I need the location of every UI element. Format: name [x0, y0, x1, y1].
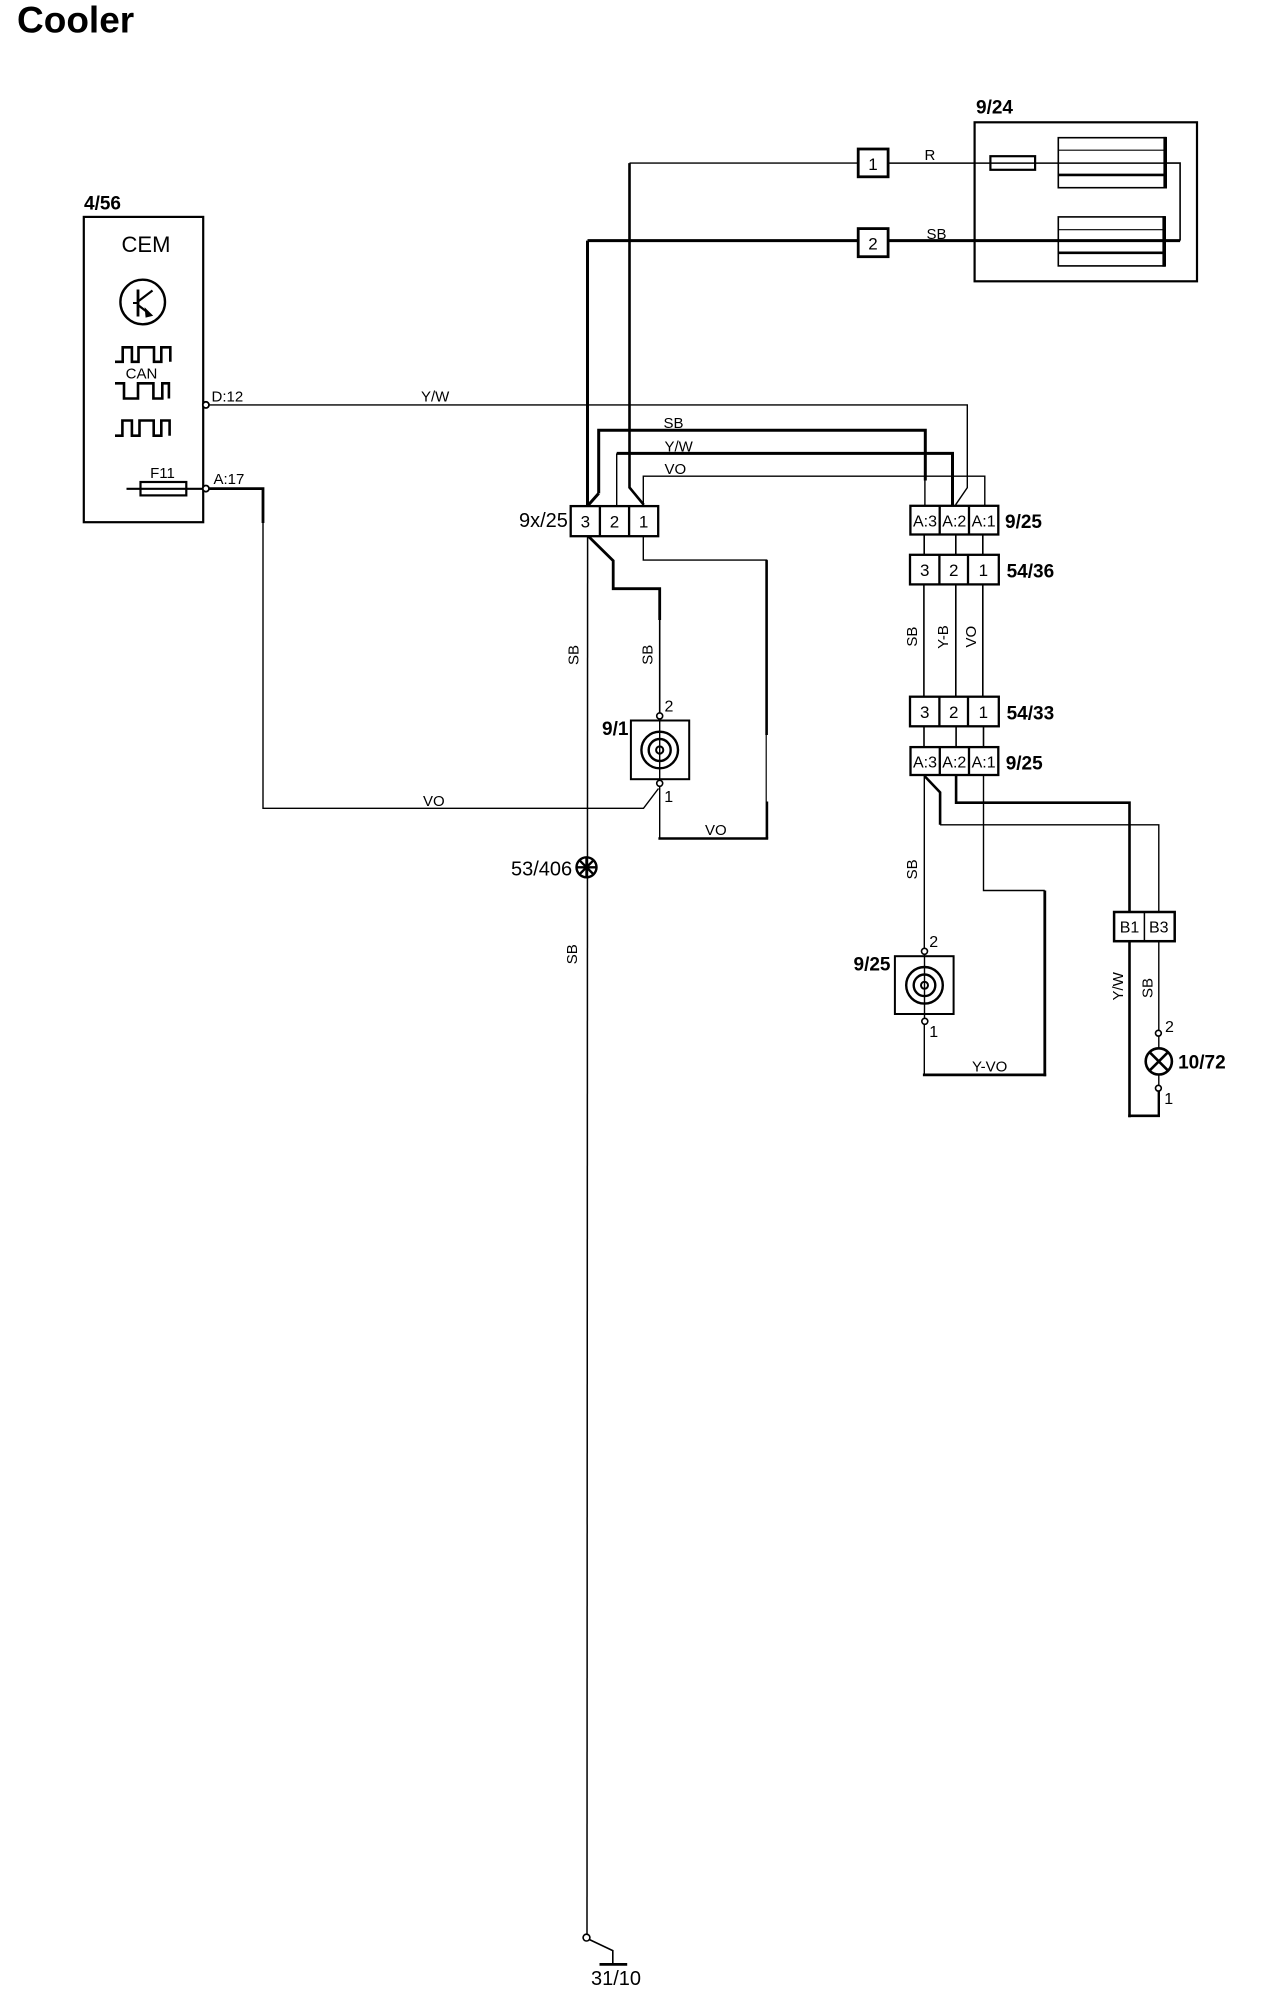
relay 9/24 box — [975, 122, 1197, 281]
wire SB from A:3 to fan 9/25 terminal 2 — [923, 775, 925, 948]
svg-text:54/33: 54/33 — [1007, 704, 1055, 725]
fan motor 9/1 box — [631, 721, 689, 780]
svg-text:4/56: 4/56 — [84, 194, 121, 215]
wire SB inside 9/24 — [888, 239, 1180, 242]
wire terminal 2 to lamp — [1158, 1036, 1160, 1048]
CAN pulse wave 1 — [115, 347, 170, 362]
svg-text:SB: SB — [1140, 978, 1157, 998]
svg-text:9/24: 9/24 — [976, 98, 1013, 119]
svg-text:SB: SB — [904, 627, 921, 647]
svg-text:3: 3 — [920, 561, 929, 580]
wire VO between 9x/25 pin1 and 9/25 A:1 — [643, 476, 985, 506]
fan motor 9/1 terminal 1 — [657, 780, 663, 786]
svg-text:VO: VO — [963, 626, 980, 648]
fan motor 9/25 concentric circles — [906, 967, 943, 1004]
svg-text:1: 1 — [979, 561, 988, 580]
wire 9/25 A:2 to 54/36 pin2 — [955, 535, 957, 555]
svg-text:9/25: 9/25 — [1006, 754, 1043, 775]
svg-text:1: 1 — [979, 703, 988, 722]
wire from A:3 to B3 — [925, 776, 941, 825]
svg-text:A:3: A:3 — [913, 755, 937, 772]
svg-text:D:12: D:12 — [212, 389, 244, 406]
splice 53/406 symbol — [577, 857, 597, 877]
fan motor 9/25 terminal 2 — [922, 948, 928, 954]
CAN pulse wave 3 — [115, 421, 170, 436]
svg-text:CAN: CAN — [126, 366, 158, 383]
wire SB vertical to 9x/25 pin 3 — [586, 241, 589, 506]
ground 31/10 bar — [600, 1963, 628, 1966]
lower contact grid in 9/24 — [1058, 216, 1164, 267]
svg-text:A:2: A:2 — [942, 755, 966, 772]
svg-text:Cooler: Cooler — [17, 0, 134, 41]
ground lead — [589, 1940, 613, 1964]
fan motor 9/1 concentric circles — [641, 732, 678, 769]
wire R vertical down to 9x/25 pin 1 — [630, 163, 644, 505]
svg-text:1: 1 — [639, 512, 648, 531]
upper contact grid in 9/24 — [1058, 137, 1165, 189]
svg-text:A:3: A:3 — [913, 514, 937, 531]
svg-text:SB: SB — [640, 645, 657, 665]
fan motor 9/25 internal wire — [924, 954, 926, 1018]
wire Y-VO bottom — [923, 1074, 1046, 1077]
svg-text:SB: SB — [664, 415, 684, 432]
svg-text:A:2: A:2 — [942, 514, 966, 531]
svg-text:VO: VO — [423, 793, 445, 810]
wire 9/25 A:1 to 54/36 pin1 — [982, 535, 984, 555]
svg-text:9x/25: 9x/25 — [519, 510, 568, 532]
fan motor 9/25 box — [895, 956, 954, 1014]
svg-text:2: 2 — [949, 561, 958, 580]
wire 9x/25 pin1 to VO loop — [643, 536, 766, 563]
wire from box 2 to left — [588, 239, 859, 242]
wire R inside 9/24 — [888, 162, 1165, 164]
svg-text:2: 2 — [1165, 1019, 1174, 1036]
svg-text:R: R — [925, 147, 936, 164]
wire lamp to terminal 1 — [1158, 1075, 1160, 1086]
svg-text:A:1: A:1 — [972, 514, 996, 531]
svg-text:1: 1 — [868, 155, 877, 174]
lamp 10/72 terminal 2 — [1156, 1030, 1162, 1036]
wire 9x/25 pin3 to 9/1 terminal 2 — [588, 536, 660, 620]
wire Y/W between 9x/25 pin2 and 9/25 A:2 — [617, 453, 953, 505]
svg-text:Y/W: Y/W — [665, 438, 694, 455]
connector 9/25 A (upper) — [910, 506, 998, 535]
svg-text:3: 3 — [920, 703, 929, 722]
svg-text:2: 2 — [949, 703, 958, 722]
lamp 10/72 terminal 1 — [1156, 1085, 1162, 1091]
CEM control module box — [84, 217, 203, 522]
svg-text:53/406: 53/406 — [511, 859, 572, 881]
svg-text:2: 2 — [610, 512, 619, 531]
svg-text:B1: B1 — [1120, 920, 1140, 937]
wire SB from B3 to lamp — [1158, 941, 1160, 1030]
terminal A:17 — [203, 486, 209, 492]
fuse F11 lead wire — [127, 488, 204, 490]
svg-text:1: 1 — [664, 789, 673, 806]
svg-text:31/10: 31/10 — [591, 1968, 641, 1990]
wire VO bottom of 9/1 loop — [658, 837, 768, 840]
wire 54/33 pin3 to 9/25 A:3 — [923, 726, 925, 747]
svg-text:VO: VO — [665, 461, 687, 478]
svg-text:3: 3 — [581, 512, 590, 531]
wire 54/33 pin2 to 9/25 A:2 — [955, 726, 957, 747]
svg-text:2: 2 — [665, 699, 674, 716]
ground terminal circle — [583, 1934, 590, 1941]
wire link upper to lower grid in 9/24 — [1165, 163, 1180, 241]
svg-text:A:1: A:1 — [972, 755, 996, 772]
svg-text:54/36: 54/36 — [1007, 562, 1055, 583]
wire SB 54/36 to 54/33 — [923, 584, 925, 696]
svg-text:SB: SB — [566, 645, 583, 665]
svg-text:Y/W: Y/W — [1110, 971, 1127, 1000]
wire Y/W from B1 down — [1128, 941, 1131, 1117]
fan motor 9/1 terminal 2 — [657, 713, 663, 719]
svg-text:Y/W: Y/W — [421, 389, 450, 406]
fan motor 9/1 internal wire — [659, 719, 661, 783]
wire 9/25 A:3 to 54/36 pin3 — [923, 535, 925, 555]
connector terminal box 2 — [858, 229, 888, 257]
CAN pulse wave 2 — [115, 383, 169, 398]
svg-text:Y-B: Y-B — [935, 625, 952, 649]
wire Y-B 54/36 to 54/33 — [955, 584, 957, 696]
svg-text:A:17: A:17 — [214, 471, 245, 488]
wire SB between 9x/25 pin3 and 9/25 A:3 — [599, 430, 926, 493]
wire 9x/25 pin3 down to ground — [586, 536, 589, 1934]
connector 54/33 — [910, 697, 999, 727]
wire VO 54/36 to 54/33 — [982, 584, 984, 696]
wire from box 1 to left — [630, 162, 859, 164]
wire bottom joining Y/W and lamp — [1128, 1115, 1160, 1118]
wire VO from A:17 to 9/1 terminal 1 — [209, 489, 263, 523]
lamp 10/72 — [1146, 1048, 1172, 1074]
wire Y/W from D:12 to 9/25 A:2 — [209, 405, 967, 505]
svg-text:10/72: 10/72 — [1178, 1053, 1226, 1074]
fuse F11 body — [141, 482, 187, 495]
svg-text:VO: VO — [705, 822, 727, 839]
svg-text:9/25: 9/25 — [1005, 512, 1042, 533]
wire from A:1 to Y-VO loop — [984, 775, 1045, 891]
svg-text:SB: SB — [904, 859, 921, 879]
svg-text:F11: F11 — [150, 465, 175, 482]
svg-text:2: 2 — [929, 934, 938, 951]
connector 9/25 A (lower) — [911, 747, 999, 775]
fuse inside 9/24 — [990, 156, 1035, 170]
wire 54/33 pin1 to 9/25 A:1 — [983, 726, 985, 747]
svg-text:1: 1 — [1164, 1091, 1173, 1108]
terminal D:12 — [203, 402, 209, 408]
svg-text:B3: B3 — [1149, 920, 1169, 937]
svg-text:9/25: 9/25 — [854, 955, 891, 976]
wire from A:2 to B1 — [956, 775, 1129, 912]
connector 54/36 — [910, 555, 999, 585]
svg-text:CEM: CEM — [122, 232, 171, 257]
wire terminal 1 down to VO loop — [659, 786, 661, 838]
svg-text:SB: SB — [564, 944, 581, 964]
svg-text:Y-VO: Y-VO — [972, 1059, 1007, 1076]
connector 9x/25 — [571, 506, 659, 536]
svg-text:2: 2 — [868, 235, 877, 254]
wire terminal 1 down to Y-VO — [923, 1024, 925, 1075]
svg-text:9/1: 9/1 — [602, 719, 629, 740]
transistor symbol circle in CEM — [120, 280, 165, 325]
connector B1 B3 — [1114, 912, 1175, 941]
wire terminal 1 down — [1158, 1091, 1160, 1116]
fan motor 9/25 terminal 1 — [922, 1018, 928, 1024]
svg-text:1: 1 — [929, 1024, 938, 1041]
connector terminal box 1 — [858, 149, 888, 177]
svg-text:SB: SB — [927, 226, 947, 243]
